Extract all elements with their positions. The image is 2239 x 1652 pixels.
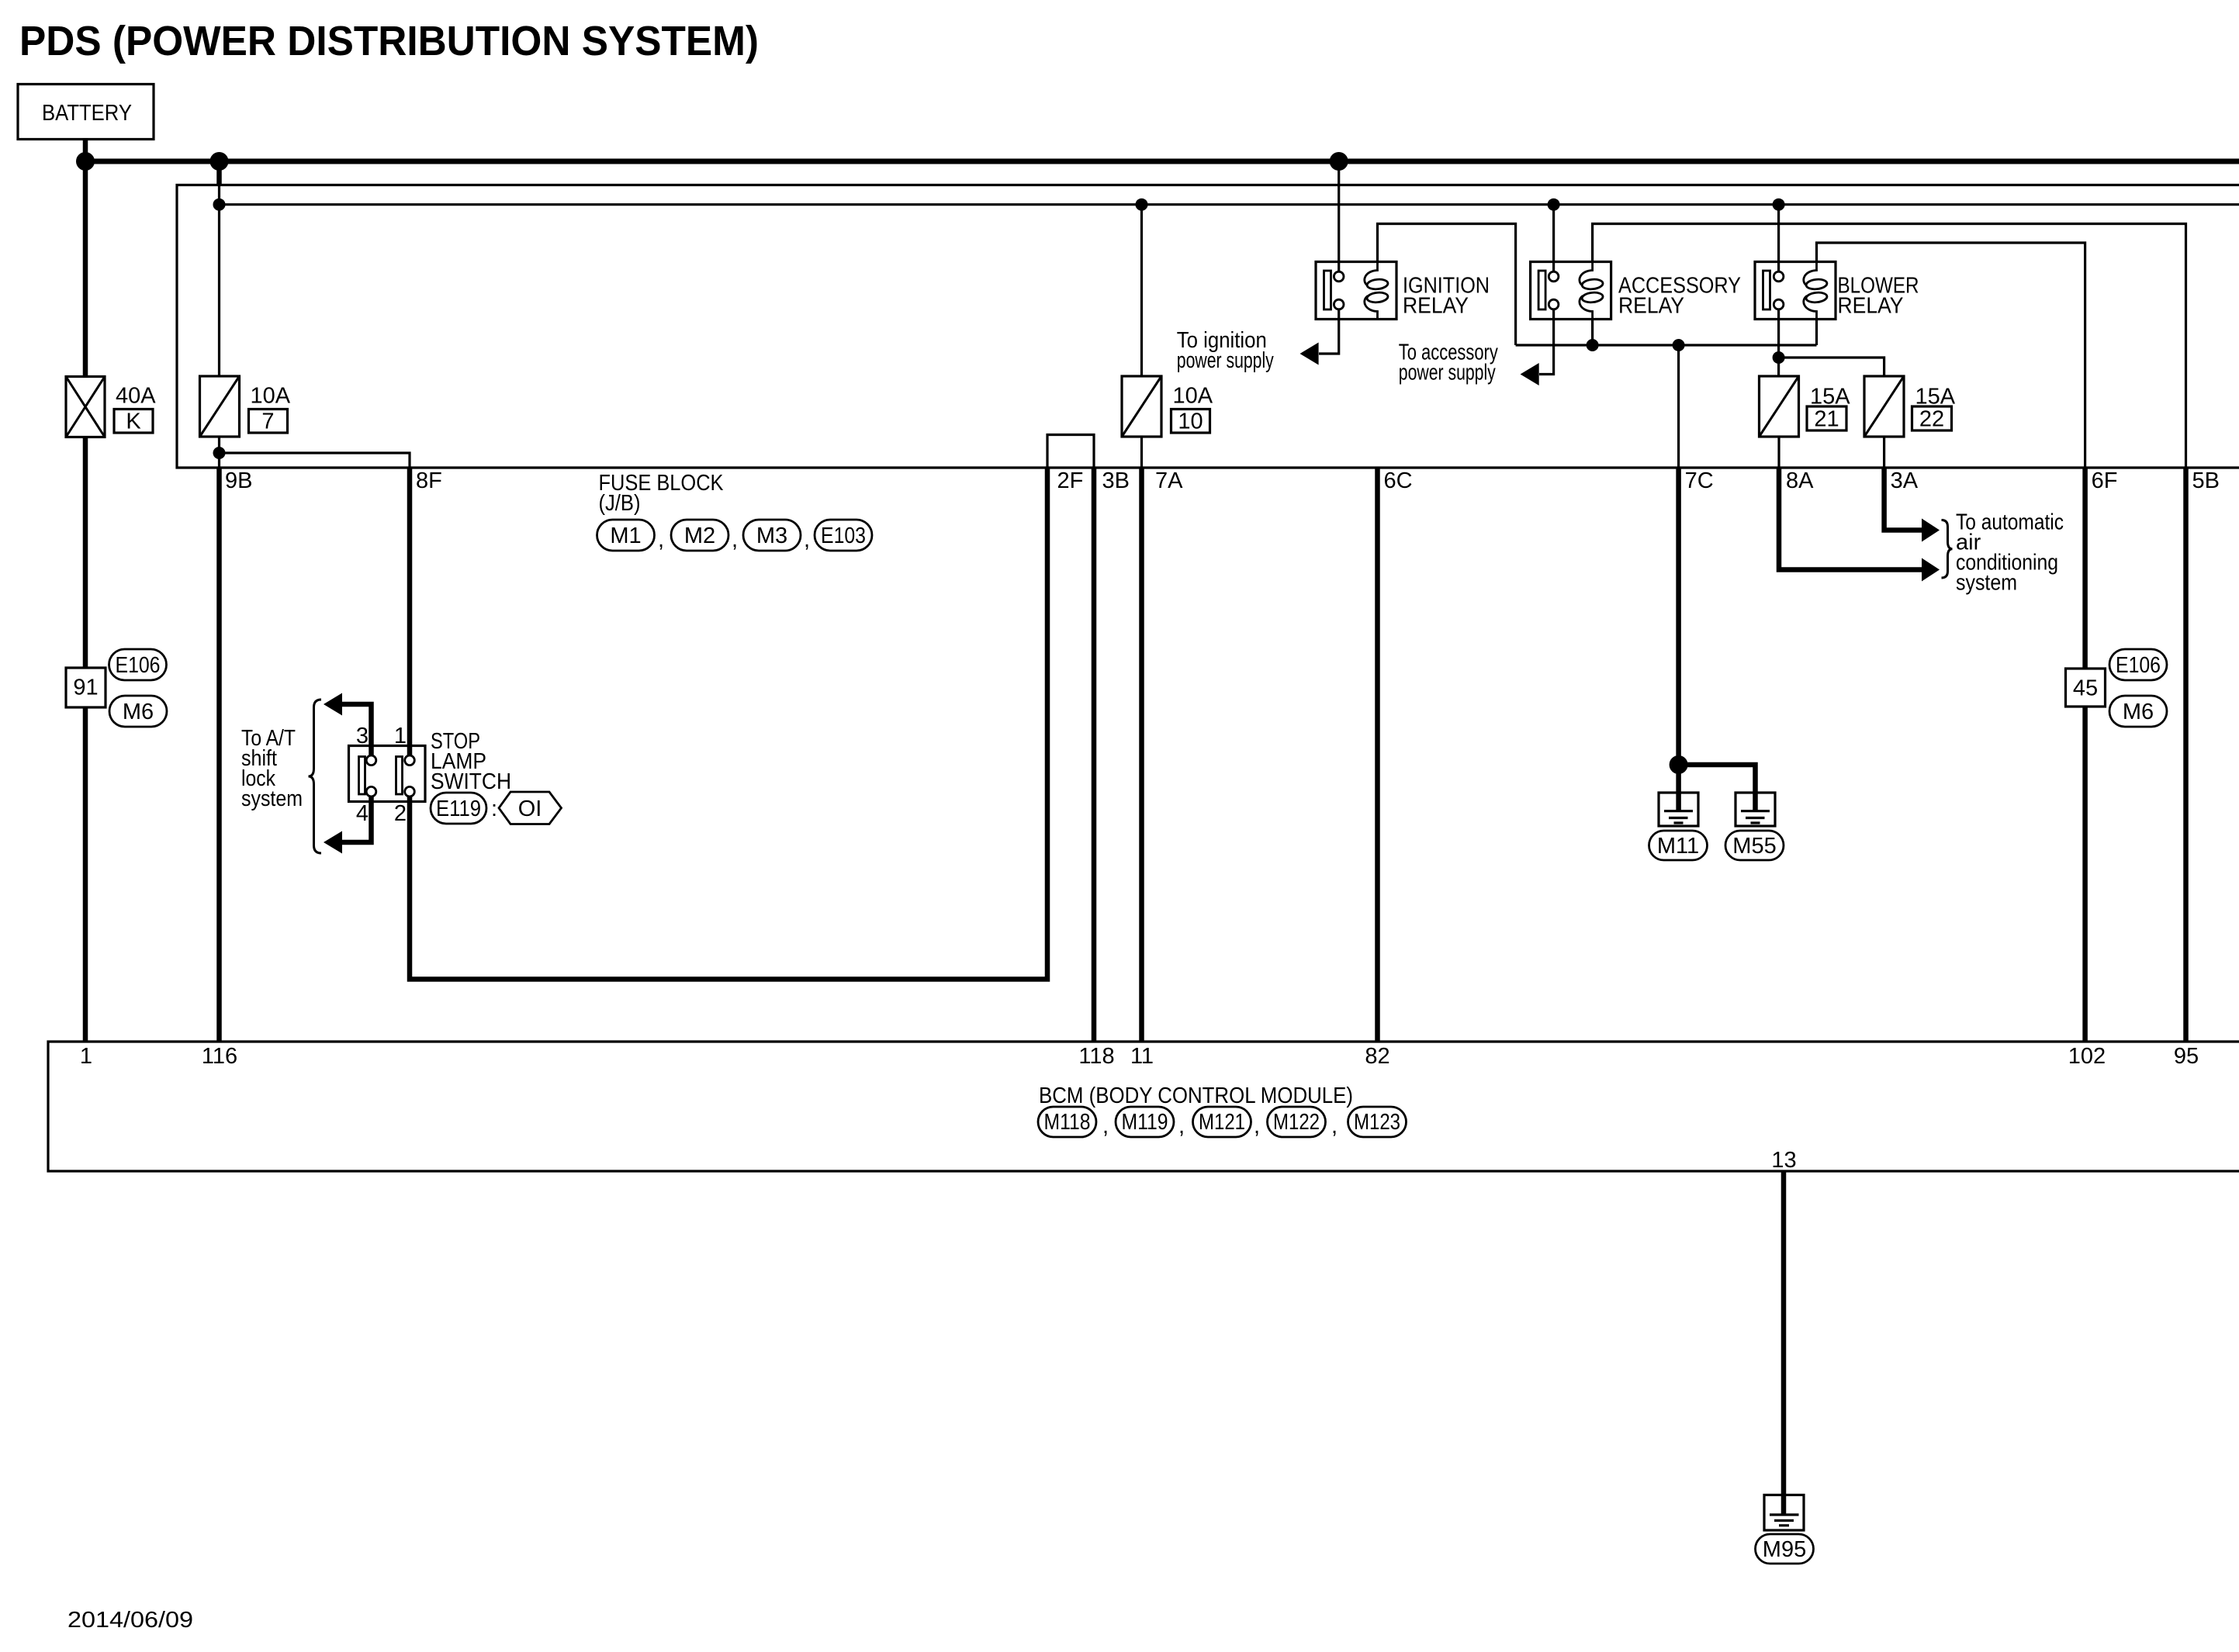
svg-text:E106: E106 (2116, 653, 2161, 678)
svg-text:2: 2 (394, 801, 407, 826)
svg-text:13: 13 (1771, 1148, 1796, 1173)
svg-text:(J/B): (J/B) (599, 491, 641, 516)
svg-text:2014/06/09: 2014/06/09 (67, 1608, 193, 1633)
svg-text:system: system (241, 786, 303, 811)
svg-text:BATTERY: BATTERY (42, 101, 132, 126)
svg-text:40A: 40A (116, 384, 156, 409)
svg-text:E103: E103 (821, 524, 866, 548)
svg-text:M6: M6 (123, 700, 154, 724)
svg-text:M3: M3 (756, 524, 787, 548)
svg-text:102: 102 (2068, 1044, 2106, 1069)
svg-text:M2: M2 (684, 524, 715, 548)
svg-text:5B: 5B (2192, 468, 2220, 493)
svg-text:7: 7 (261, 410, 274, 434)
svg-text:M119: M119 (1122, 1110, 1168, 1135)
svg-text:power supply: power supply (1177, 348, 1274, 373)
svg-text:M6: M6 (2123, 700, 2154, 724)
svg-text:,: , (732, 527, 738, 552)
svg-text:118: 118 (1078, 1044, 1114, 1069)
svg-text:M1: M1 (610, 524, 641, 548)
svg-text:10A: 10A (251, 384, 291, 409)
svg-text:10A: 10A (1173, 384, 1213, 409)
svg-text:91: 91 (73, 676, 98, 700)
svg-text:2F: 2F (1057, 468, 1084, 493)
svg-text:E106: E106 (116, 653, 161, 678)
svg-text:RELAY: RELAY (1838, 294, 1904, 319)
svg-text:power supply: power supply (1399, 361, 1496, 385)
svg-text:3A: 3A (1891, 468, 1919, 493)
svg-text:7A: 7A (1155, 468, 1183, 493)
svg-text:3: 3 (356, 724, 369, 748)
svg-text:K: K (126, 410, 141, 434)
svg-text:BCM (BODY CONTROL MODULE): BCM (BODY CONTROL MODULE) (1039, 1083, 1353, 1108)
svg-text:,: , (804, 527, 810, 552)
svg-text:6F: 6F (2092, 468, 2118, 493)
svg-text:M121: M121 (1199, 1110, 1245, 1135)
svg-text:116: 116 (202, 1044, 237, 1069)
svg-text:E119: E119 (436, 797, 481, 821)
svg-text::: : (491, 797, 497, 821)
svg-text:M122: M122 (1273, 1110, 1320, 1135)
svg-text:RELAY: RELAY (1618, 294, 1684, 319)
svg-text:1: 1 (394, 724, 407, 748)
svg-text:21: 21 (1814, 407, 1839, 432)
svg-text:OI: OI (518, 797, 542, 821)
svg-text:M123: M123 (1354, 1110, 1400, 1135)
svg-text:M55: M55 (1732, 834, 1776, 859)
svg-text:,: , (1331, 1114, 1338, 1139)
svg-text:8A: 8A (1786, 468, 1814, 493)
svg-text:15A: 15A (1810, 385, 1850, 410)
svg-text:1: 1 (80, 1044, 92, 1069)
svg-text:11: 11 (1130, 1044, 1154, 1069)
svg-text:M95: M95 (1763, 1537, 1806, 1562)
svg-text:4: 4 (356, 801, 369, 826)
svg-text:10: 10 (1178, 410, 1203, 434)
svg-text:82: 82 (1365, 1044, 1389, 1069)
svg-text:,: , (1102, 1114, 1109, 1139)
svg-text:M11: M11 (1657, 834, 1699, 859)
svg-text:95: 95 (2174, 1044, 2199, 1069)
svg-text:system: system (1956, 571, 2017, 596)
svg-text:,: , (1254, 1114, 1260, 1139)
svg-text:,: , (658, 527, 664, 552)
svg-text:PDS (POWER DISTRIBUTION SYSTEM: PDS (POWER DISTRIBUTION SYSTEM) (19, 18, 759, 64)
svg-text:45: 45 (2073, 676, 2098, 701)
svg-text:9B: 9B (225, 468, 252, 493)
svg-text:,: , (1178, 1114, 1185, 1139)
svg-text:6C: 6C (1384, 468, 1413, 493)
svg-text:RELAY: RELAY (1403, 294, 1469, 319)
svg-text:8F: 8F (416, 468, 442, 493)
svg-text:7C: 7C (1685, 468, 1714, 493)
svg-text:22: 22 (1919, 407, 1944, 432)
svg-text:3B: 3B (1102, 468, 1130, 493)
svg-text:15A: 15A (1915, 385, 1956, 410)
svg-text:M118: M118 (1044, 1110, 1091, 1135)
svg-text:SWITCH: SWITCH (431, 769, 511, 794)
